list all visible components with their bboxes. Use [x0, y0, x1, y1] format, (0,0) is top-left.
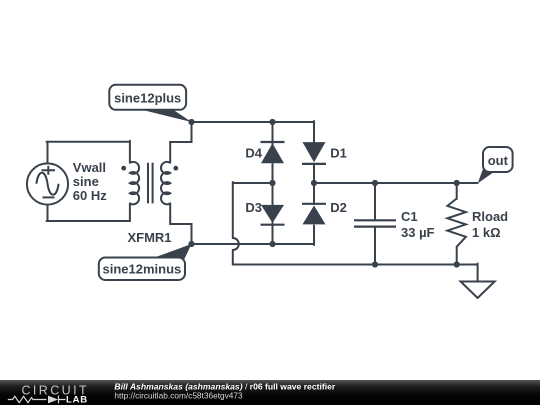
junction dot mid rail at D1/D2 — [311, 180, 317, 186]
resistor Rload zigzag — [447, 199, 466, 247]
wire ground drop with hop over bottom rail — [233, 182, 239, 265]
Vwall value labels — [73, 160, 107, 203]
wire Rload bottom stub — [456, 247, 458, 265]
node flag sine12plus box — [109, 85, 186, 110]
node flag sine12plus pointer — [137, 109, 192, 122]
wire D3 bottom stub — [272, 223, 274, 245]
diode D4 triangle — [261, 143, 284, 163]
wire source top to primary top-left — [47, 142, 49, 164]
node flag sine12minus pointer — [151, 244, 192, 259]
svg-text:D3: D3 — [245, 200, 262, 215]
node flag out box — [483, 147, 513, 172]
transformer XFMR1 right winding — [161, 162, 170, 204]
wire primary bottom — [47, 220, 130, 222]
svg-text:Rload: Rload — [472, 209, 508, 224]
diode D3 triangle — [261, 205, 284, 223]
wire secondary bottom jog — [170, 203, 191, 244]
svg-text:60 Hz: 60 Hz — [73, 188, 107, 203]
junction dot bottom rail at secondary — [188, 241, 194, 247]
diode D2 triangle — [303, 206, 326, 225]
wire ground stub — [477, 264, 479, 282]
junction dot lower rail at C1 — [372, 261, 378, 267]
voltage source Vwall circle — [27, 163, 68, 204]
wire primary top — [47, 141, 130, 143]
diode D1 triangle — [303, 142, 326, 162]
svg-text:XFMR1: XFMR1 — [127, 230, 171, 245]
wire D4 bottom stub — [272, 164, 274, 183]
wire mid-left link — [233, 182, 273, 184]
svg-text:D1: D1 — [330, 146, 347, 161]
junction dot top rail at secondary — [188, 119, 194, 125]
svg-text:D2: D2 — [330, 200, 347, 215]
svg-text:out: out — [488, 153, 509, 168]
diode D3 cathode bar — [261, 224, 285, 226]
svg-text:http://circuitlab.com/c58t36et: http://circuitlab.com/c58t36etgv473 — [114, 391, 243, 401]
wire bottom rail (sine12minus net) — [192, 243, 315, 245]
CircuitLab logo squiggle resistor and diode — [8, 396, 66, 404]
wire C1 top stub — [374, 183, 376, 219]
svg-text:sine12plus: sine12plus — [114, 90, 181, 105]
junction dot mid rail at Rload — [454, 180, 460, 186]
svg-text:33 µF: 33 µF — [401, 225, 435, 240]
wire source bottom — [47, 205, 49, 221]
wire left coil bottom feed — [129, 203, 131, 221]
transformer polarity dot left — [121, 166, 126, 171]
wire lower ground rail — [233, 264, 478, 266]
node flag sine12minus box — [99, 258, 185, 281]
ground symbol — [461, 282, 495, 299]
svg-text:C1: C1 — [401, 209, 418, 224]
svg-text:Vwall: Vwall — [73, 160, 106, 175]
diode D4 cathode bar — [261, 141, 285, 143]
svg-text:1 kΩ: 1 kΩ — [472, 225, 501, 240]
resistor Rload labels — [472, 209, 508, 240]
svg-text:D4: D4 — [245, 146, 262, 161]
wire left coil top feed — [129, 141, 131, 163]
junction dot top rail at D4 — [269, 119, 275, 125]
wire D1 bottom stub — [313, 165, 315, 183]
wire secondary top jog — [170, 122, 191, 163]
wire D4 top stub — [272, 122, 274, 145]
wire out rail — [314, 182, 478, 184]
svg-text:sine: sine — [73, 174, 99, 189]
capacitor C1 plates — [354, 220, 396, 226]
node flag out pointer — [478, 167, 495, 183]
wire C1 bottom stub — [374, 228, 376, 265]
transformer polarity dot right — [173, 166, 178, 171]
junction dot mid rail at D4/D3 — [269, 180, 275, 186]
diode D1 cathode bar — [302, 163, 326, 165]
transformer XFMR1 left winding — [130, 162, 139, 204]
wire D1 top stub — [313, 121, 315, 142]
wire D2 top stub — [313, 183, 315, 204]
voltage source sine symbol — [36, 173, 58, 195]
voltage source plus sign — [42, 166, 56, 175]
junction dot lower rail at Rload — [454, 261, 460, 267]
diode D2 cathode bar — [302, 203, 326, 205]
capacitor C1 labels — [401, 209, 435, 240]
transformer core lines — [148, 163, 153, 204]
junction dot mid rail at C1 — [372, 180, 378, 186]
wire D2 bottom stub — [313, 226, 315, 246]
voltage source minus sign — [43, 196, 55, 198]
svg-text:LAB: LAB — [66, 395, 88, 405]
svg-text:sine12minus: sine12minus — [103, 262, 182, 277]
junction dot bottom rail at D3 — [269, 241, 275, 247]
wire top rail (sine12plus net) — [192, 121, 315, 123]
wire D3 top stub — [272, 183, 274, 205]
wire Rload top stub — [456, 183, 458, 199]
